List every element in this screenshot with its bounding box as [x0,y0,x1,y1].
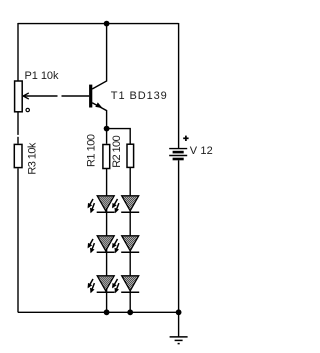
potentiometer P1 body [15,81,23,112]
transistor T1 collector [92,24,106,89]
ground [170,337,188,344]
wire LED column left [106,168,108,312]
svg-text:R3 10k: R3 10k [26,142,38,175]
wire emitter node to R1 top [106,129,108,144]
wire bottom rail [18,311,179,313]
wire right rail battery plus [178,23,180,148]
LED D6 [112,276,139,294]
LED D5 [112,236,139,254]
LED D1 [88,196,115,214]
LED D2 [88,236,115,254]
potentiometer P1 wiper arrow [23,93,57,99]
wire base P1 wiper to T1 [62,95,90,97]
transistor T1 base bar [89,85,92,108]
svg-text:P1 10k: P1 10k [25,70,60,82]
resistor R1 body [103,145,110,169]
junction dot left column bottom [104,309,110,315]
transistor T1 emitter [92,102,106,128]
wire R3 bottom to bottom rail [17,168,19,312]
battery V1 [169,149,187,159]
junction dot ground node [176,309,182,315]
junction dot emitter node [104,126,110,132]
wire top rail [18,23,179,25]
wire battery minus to ground node [178,160,180,312]
potentiometer P1 terminal circle [26,108,29,111]
wire LED column right [129,168,131,312]
label plus [183,136,188,141]
svg-text:R2 100: R2 100 [111,135,123,168]
LED D3 [88,276,115,294]
wire ground lead [178,312,180,336]
resistor R2 body [127,144,134,167]
junction dot right column bottom [127,309,133,315]
resistor R3 body [14,144,22,167]
svg-text:T1 BD139: T1 BD139 [111,90,167,102]
wire emitter node to R2 top [107,129,131,144]
wire P1 bottom to R3 [17,113,19,144]
junction dot collector top [104,21,110,27]
LED D4 [112,196,139,214]
wire left rail top to P1 [17,23,19,81]
svg-text:R1 100: R1 100 [86,134,98,167]
svg-text:V 12: V 12 [190,145,213,157]
